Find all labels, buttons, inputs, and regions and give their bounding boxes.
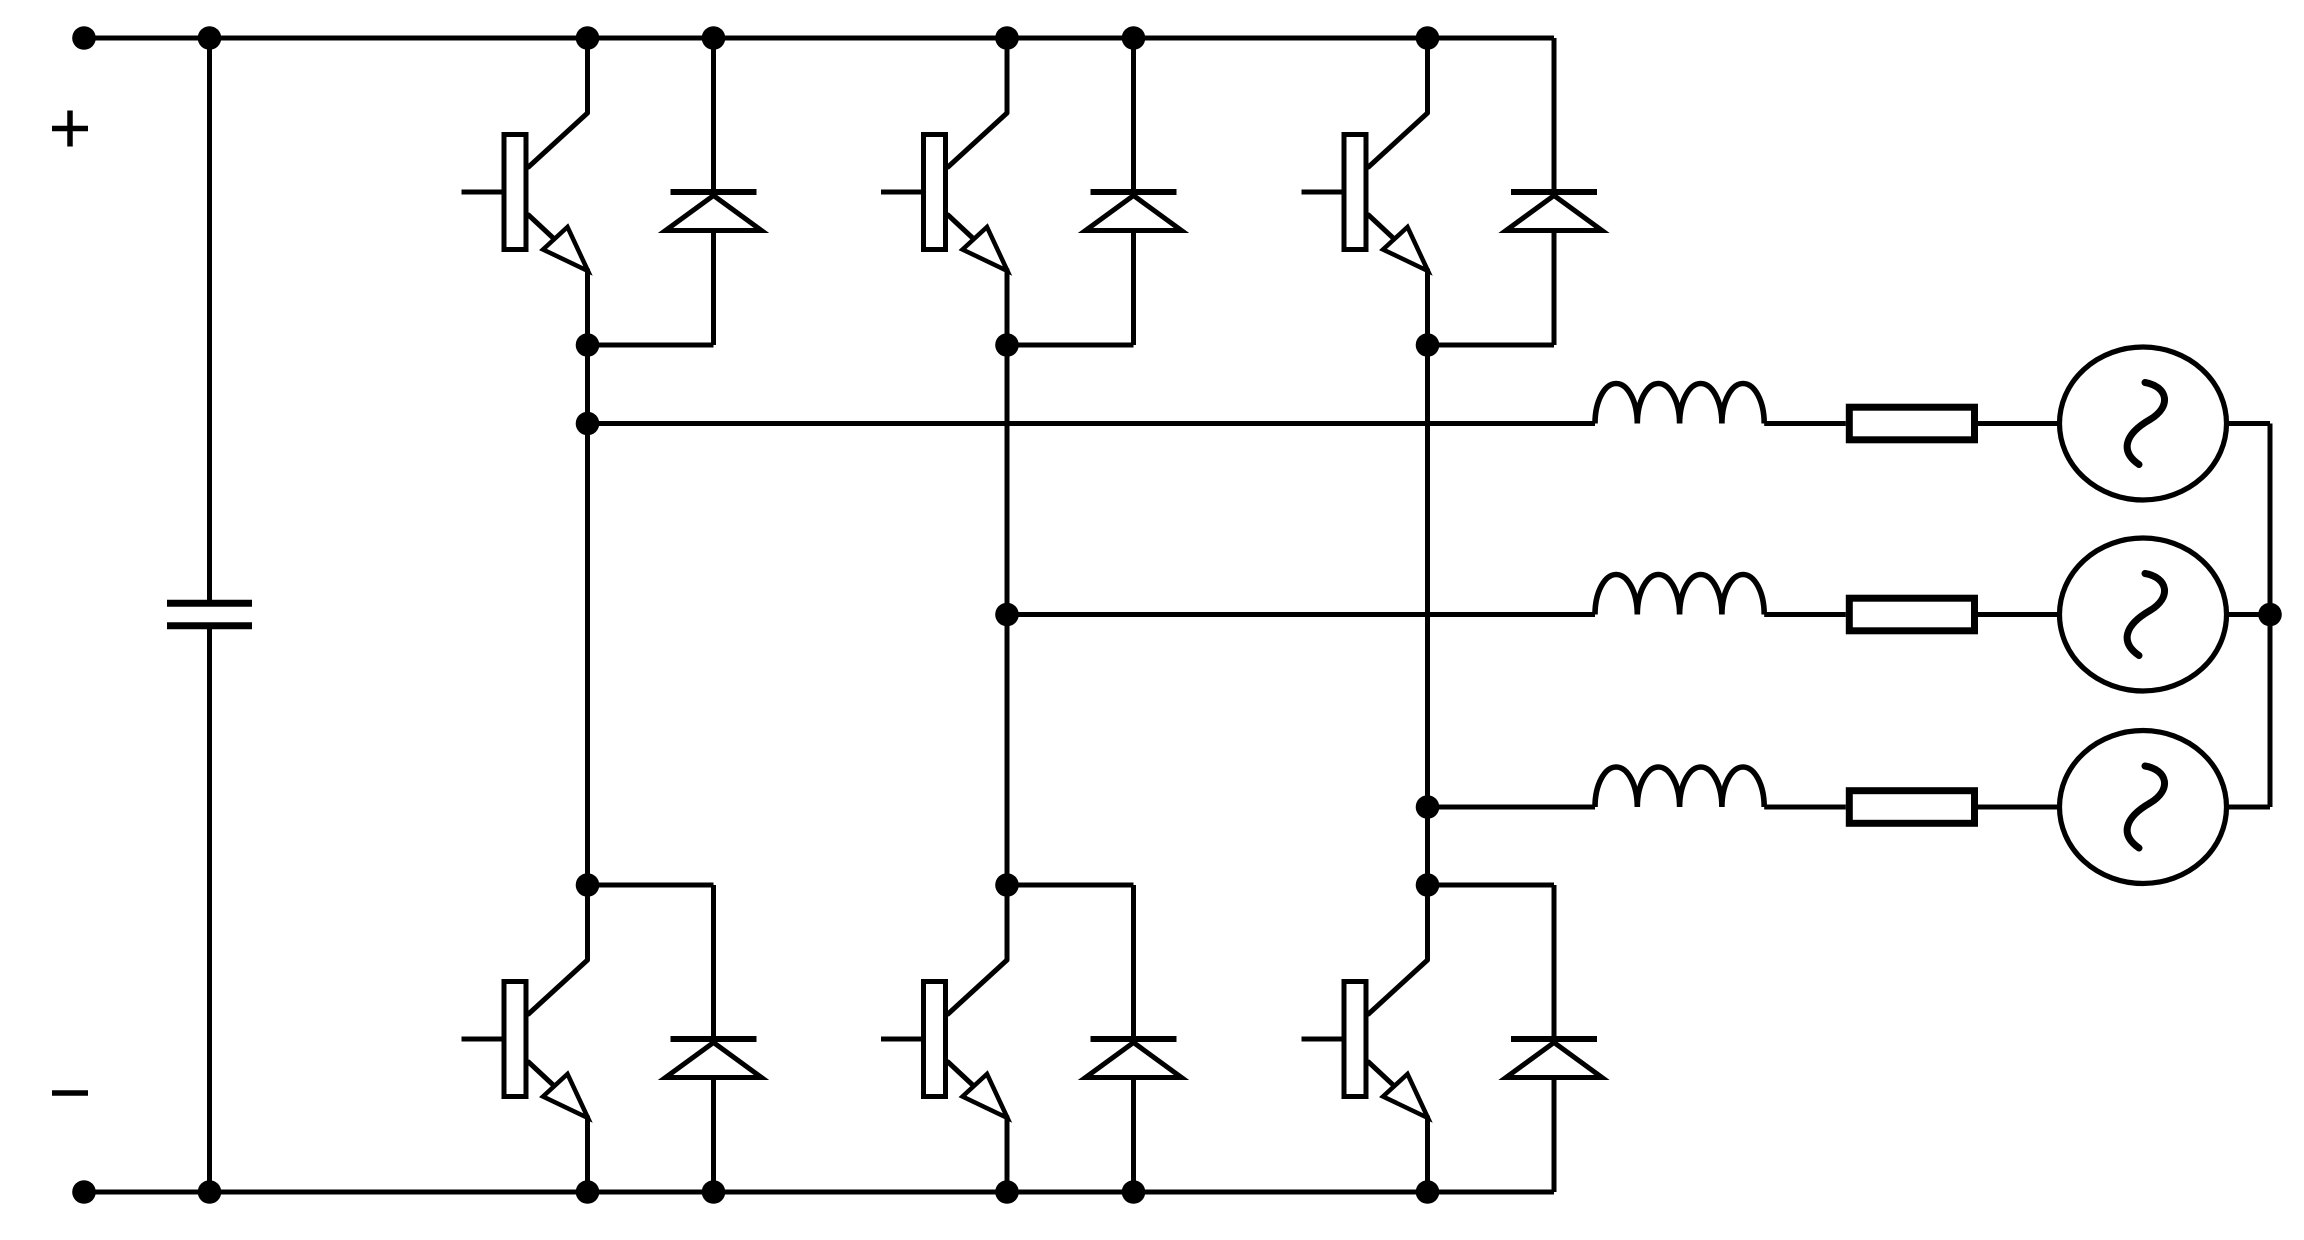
junction leg 3 emitter / bottom rail xyxy=(1416,1180,1440,1204)
wire phase leg 2 vertical xyxy=(1005,345,1010,885)
diode D5 xyxy=(1086,885,1182,1192)
diode D2 xyxy=(1086,38,1182,345)
wire emitter node leg 2 upper xyxy=(1007,343,1134,348)
wire resistor R1 to source V1 xyxy=(1978,421,2059,426)
wire capacitor bottom lead xyxy=(207,628,212,1192)
wire resistor R3 to source V3 xyxy=(1978,805,2059,810)
node leg 1 upper midpoint xyxy=(576,333,600,357)
wire inductor L3 to resistor R3 xyxy=(1764,805,1846,810)
junction diode D4 / bottom rail xyxy=(702,1180,726,1204)
junction leg 1 collector / top rail xyxy=(576,26,600,50)
wire phase leg 1 vertical xyxy=(585,345,590,885)
resistor R3 xyxy=(1849,791,1974,824)
node phase B xyxy=(995,603,1019,627)
junction leg 1 emitter / bottom rail xyxy=(576,1180,600,1204)
transistor Q5 xyxy=(881,885,1008,1192)
wire source V2 to neutral bus xyxy=(2227,612,2270,617)
terminal DC- xyxy=(72,1180,96,1204)
wire inductor L2 to resistor R2 xyxy=(1764,612,1846,617)
node leg 3 lower midpoint xyxy=(1416,873,1440,897)
transistor Q2 xyxy=(881,38,1008,345)
wire emitter node leg 1 upper xyxy=(588,343,714,348)
inductor L2 xyxy=(1595,574,1764,614)
ac source V1 xyxy=(2060,347,2227,500)
wire collector node leg 1 lower xyxy=(588,883,714,888)
wire phase C output xyxy=(1428,805,1596,810)
diode D1 xyxy=(666,38,762,345)
diode D6 xyxy=(1506,885,1602,1192)
resistor R1 xyxy=(1849,407,1974,440)
transistor Q4 xyxy=(462,885,589,1192)
label - (DC negative) xyxy=(52,1090,88,1096)
wire phase B output xyxy=(1007,612,1595,617)
node phase A xyxy=(576,412,600,436)
diode D3 xyxy=(1506,38,1602,345)
wire neutral bus xyxy=(2268,424,2273,808)
transistor Q1 xyxy=(462,38,589,345)
wire source V3 to neutral bus xyxy=(2227,805,2270,810)
junction diode D5 / bottom rail xyxy=(1122,1180,1146,1204)
wire phase leg 3 vertical xyxy=(1425,345,1430,885)
diode D4 xyxy=(666,885,762,1192)
inductor L1 xyxy=(1595,383,1764,423)
transistor Q6 xyxy=(1302,885,1429,1192)
node phase C xyxy=(1416,795,1440,819)
wire capacitor top lead xyxy=(207,38,212,601)
inductor L3 xyxy=(1595,767,1764,807)
junction diode D2 / top rail xyxy=(1122,26,1146,50)
ac source V2 xyxy=(2060,538,2227,691)
node leg 2 lower midpoint xyxy=(995,873,1019,897)
wire collector node leg 2 lower xyxy=(1007,883,1134,888)
terminal DC+ xyxy=(72,26,96,50)
junction capacitor / bottom rail xyxy=(198,1180,222,1204)
wire source V1 to neutral bus xyxy=(2227,421,2270,426)
node leg 2 upper midpoint xyxy=(995,333,1019,357)
wire DC- bottom rail xyxy=(84,1190,1554,1195)
wire inductor L1 to resistor R1 xyxy=(1764,421,1846,426)
junction source V2 / neutral bus xyxy=(2258,603,2282,627)
junction leg 3 collector / top rail xyxy=(1416,26,1440,50)
wire DC+ top rail xyxy=(84,36,1554,41)
label + (DC positive) xyxy=(52,111,88,147)
wire phase A output xyxy=(588,421,1596,426)
wire resistor R2 to source V2 xyxy=(1978,612,2059,617)
junction diode D1 / top rail xyxy=(702,26,726,50)
wire emitter node leg 3 upper xyxy=(1428,343,1555,348)
wire collector node leg 3 lower xyxy=(1428,883,1555,888)
resistor R2 xyxy=(1849,598,1974,631)
junction capacitor / top rail xyxy=(198,26,222,50)
ac source V3 xyxy=(2060,731,2227,884)
capacitor C1 xyxy=(167,603,252,626)
node leg 3 upper midpoint xyxy=(1416,333,1440,357)
junction leg 2 collector / top rail xyxy=(995,26,1019,50)
node leg 1 lower midpoint xyxy=(576,873,600,897)
transistor Q3 xyxy=(1302,38,1429,345)
junction leg 2 emitter / bottom rail xyxy=(995,1180,1019,1204)
